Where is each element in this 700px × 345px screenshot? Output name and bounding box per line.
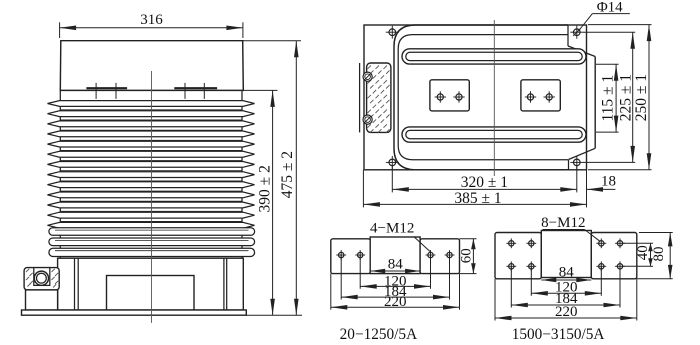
primary terminal bushing inner circle — [37, 273, 47, 283]
terminal B dim 220 — [495, 317, 637, 319]
terminal A right pad — [420, 239, 459, 274]
svg-text:84: 84 — [559, 264, 575, 280]
terminal B dim 40 line — [650, 243, 652, 266]
lower body inner double lines left — [74, 258, 76, 310]
dim 475 top extension line — [243, 40, 301, 42]
terminal A dim 120 — [360, 285, 430, 287]
svg-text:40: 40 — [635, 245, 651, 260]
terminal box inner square — [34, 268, 50, 286]
svg-text:225 ± 1: 225 ± 1 — [617, 74, 634, 121]
dim 390 line with arrows — [272, 90, 274, 315]
terminal box pedestal — [26, 290, 58, 310]
plan top-right corner pocket — [567, 25, 569, 46]
terminal B left pad — [495, 233, 541, 279]
plan mounting holes Φ14 — [389, 29, 396, 36]
terminal B extension lines — [510, 266, 512, 307]
plan left terminal square — [430, 80, 469, 111]
plan bottom-right corner pocket — [568, 160, 570, 170]
terminal A dim 60 extensions — [460, 238, 477, 240]
plan top slot inner — [406, 52, 582, 60]
svg-text:475 ± 2: 475 ± 2 — [279, 151, 296, 198]
terminal A dim 84 — [370, 270, 420, 272]
svg-text:84: 84 — [388, 257, 404, 273]
top flange thick bars — [86, 87, 127, 89]
terminal B dim 84 — [541, 279, 591, 281]
svg-text:316: 316 — [140, 12, 163, 28]
svg-text:18: 18 — [601, 174, 616, 190]
svg-text:115 ± 1: 115 ± 1 — [599, 75, 616, 122]
front window opening — [107, 276, 195, 311]
svg-text:4−M12: 4−M12 — [370, 221, 414, 237]
plan body rounded outline (outer+inner) — [394, 25, 568, 170]
svg-text:8−M12: 8−M12 — [541, 215, 585, 231]
dim 225 line — [632, 32, 634, 162]
svg-text:250 ± 1: 250 ± 1 — [633, 74, 650, 121]
plan vertical centerline — [493, 20, 495, 176]
plan top slot outer — [402, 49, 586, 64]
dim 115 extension lines — [596, 63, 619, 65]
svg-text:60: 60 — [458, 248, 474, 263]
dim 320 line — [392, 188, 577, 190]
terminal B middle block — [541, 231, 591, 278]
terminal A middle block — [370, 237, 420, 274]
svg-text:385 ± 1: 385 ± 1 — [454, 190, 501, 207]
dim 385 line — [363, 203, 586, 205]
bellows core left edge — [59, 90, 61, 259]
svg-text:220: 220 — [555, 304, 578, 320]
dim 385 extension lines — [362, 170, 364, 208]
terminal A holes — [339, 252, 344, 257]
dim 225 extension lines — [583, 31, 635, 33]
terminal A left pad — [331, 239, 370, 274]
terminal B dim 120 — [531, 292, 601, 294]
lower body box — [58, 258, 244, 310]
secondary terminal box — [24, 268, 59, 290]
plan bottom slot inner — [406, 130, 582, 138]
terminal A extension lines — [340, 255, 342, 300]
plan terminal box screws — [363, 72, 372, 81]
dimension 316 line with arrows — [60, 27, 243, 29]
dim 250 extension lines — [588, 24, 652, 26]
svg-text:320 ± 1: 320 ± 1 — [461, 174, 508, 191]
terminal B dim 184 — [511, 304, 620, 306]
primary terminal bushing outer circle — [34, 271, 48, 285]
plan outer mounting rectangle — [364, 25, 587, 170]
plan right terminal square — [521, 80, 560, 111]
terminal B dim 80 line — [669, 233, 671, 279]
terminal box hatching — [26, 269, 29, 272]
base plate — [22, 310, 247, 315]
svg-text:1500−3150/5A: 1500−3150/5A — [512, 326, 605, 343]
terminal A dim 60 line — [472, 239, 474, 274]
terminal B holes — [509, 241, 514, 246]
bellows sheds (13 fins) with trough lines — [48, 101, 255, 107]
front view head (top cap) — [60, 41, 243, 91]
terminal A dim 220 — [331, 306, 460, 308]
plan right bump edge — [594, 57, 596, 149]
dimension 316 extension lines — [59, 22, 61, 38]
top flange tick marks — [95, 83, 97, 99]
plan left hatched terminal box — [367, 63, 391, 132]
plan left protruding plate edge — [359, 63, 361, 132]
dim 18 arrow and line — [587, 188, 616, 190]
plan bottom slot outer — [402, 127, 586, 142]
front view vertical centerline — [151, 71, 153, 323]
svg-text:20−1250/5A: 20−1250/5A — [340, 326, 417, 343]
svg-text:220: 220 — [384, 294, 407, 310]
bellows bottom large sheds (3) — [49, 228, 255, 236]
plan terminal holes — [437, 94, 443, 100]
bellows core right edge — [241, 90, 243, 259]
dim 320 extension lines — [391, 166, 393, 192]
dim 250 line — [648, 25, 650, 170]
dim 115 line — [615, 64, 617, 132]
terminal B right pad — [591, 233, 637, 279]
dim 475 line with arrows — [295, 41, 297, 316]
terminal B dim 80 extensions — [639, 232, 673, 234]
bottom extension line — [246, 314, 302, 316]
dim 390 top extension line — [243, 89, 277, 91]
svg-text:390 ± 2: 390 ± 2 — [256, 165, 273, 212]
svg-text:80: 80 — [651, 247, 667, 262]
terminal A dim 184 — [341, 296, 449, 298]
lower body inner double lines right — [223, 258, 225, 310]
terminal B dim 40 extensions — [622, 242, 653, 244]
